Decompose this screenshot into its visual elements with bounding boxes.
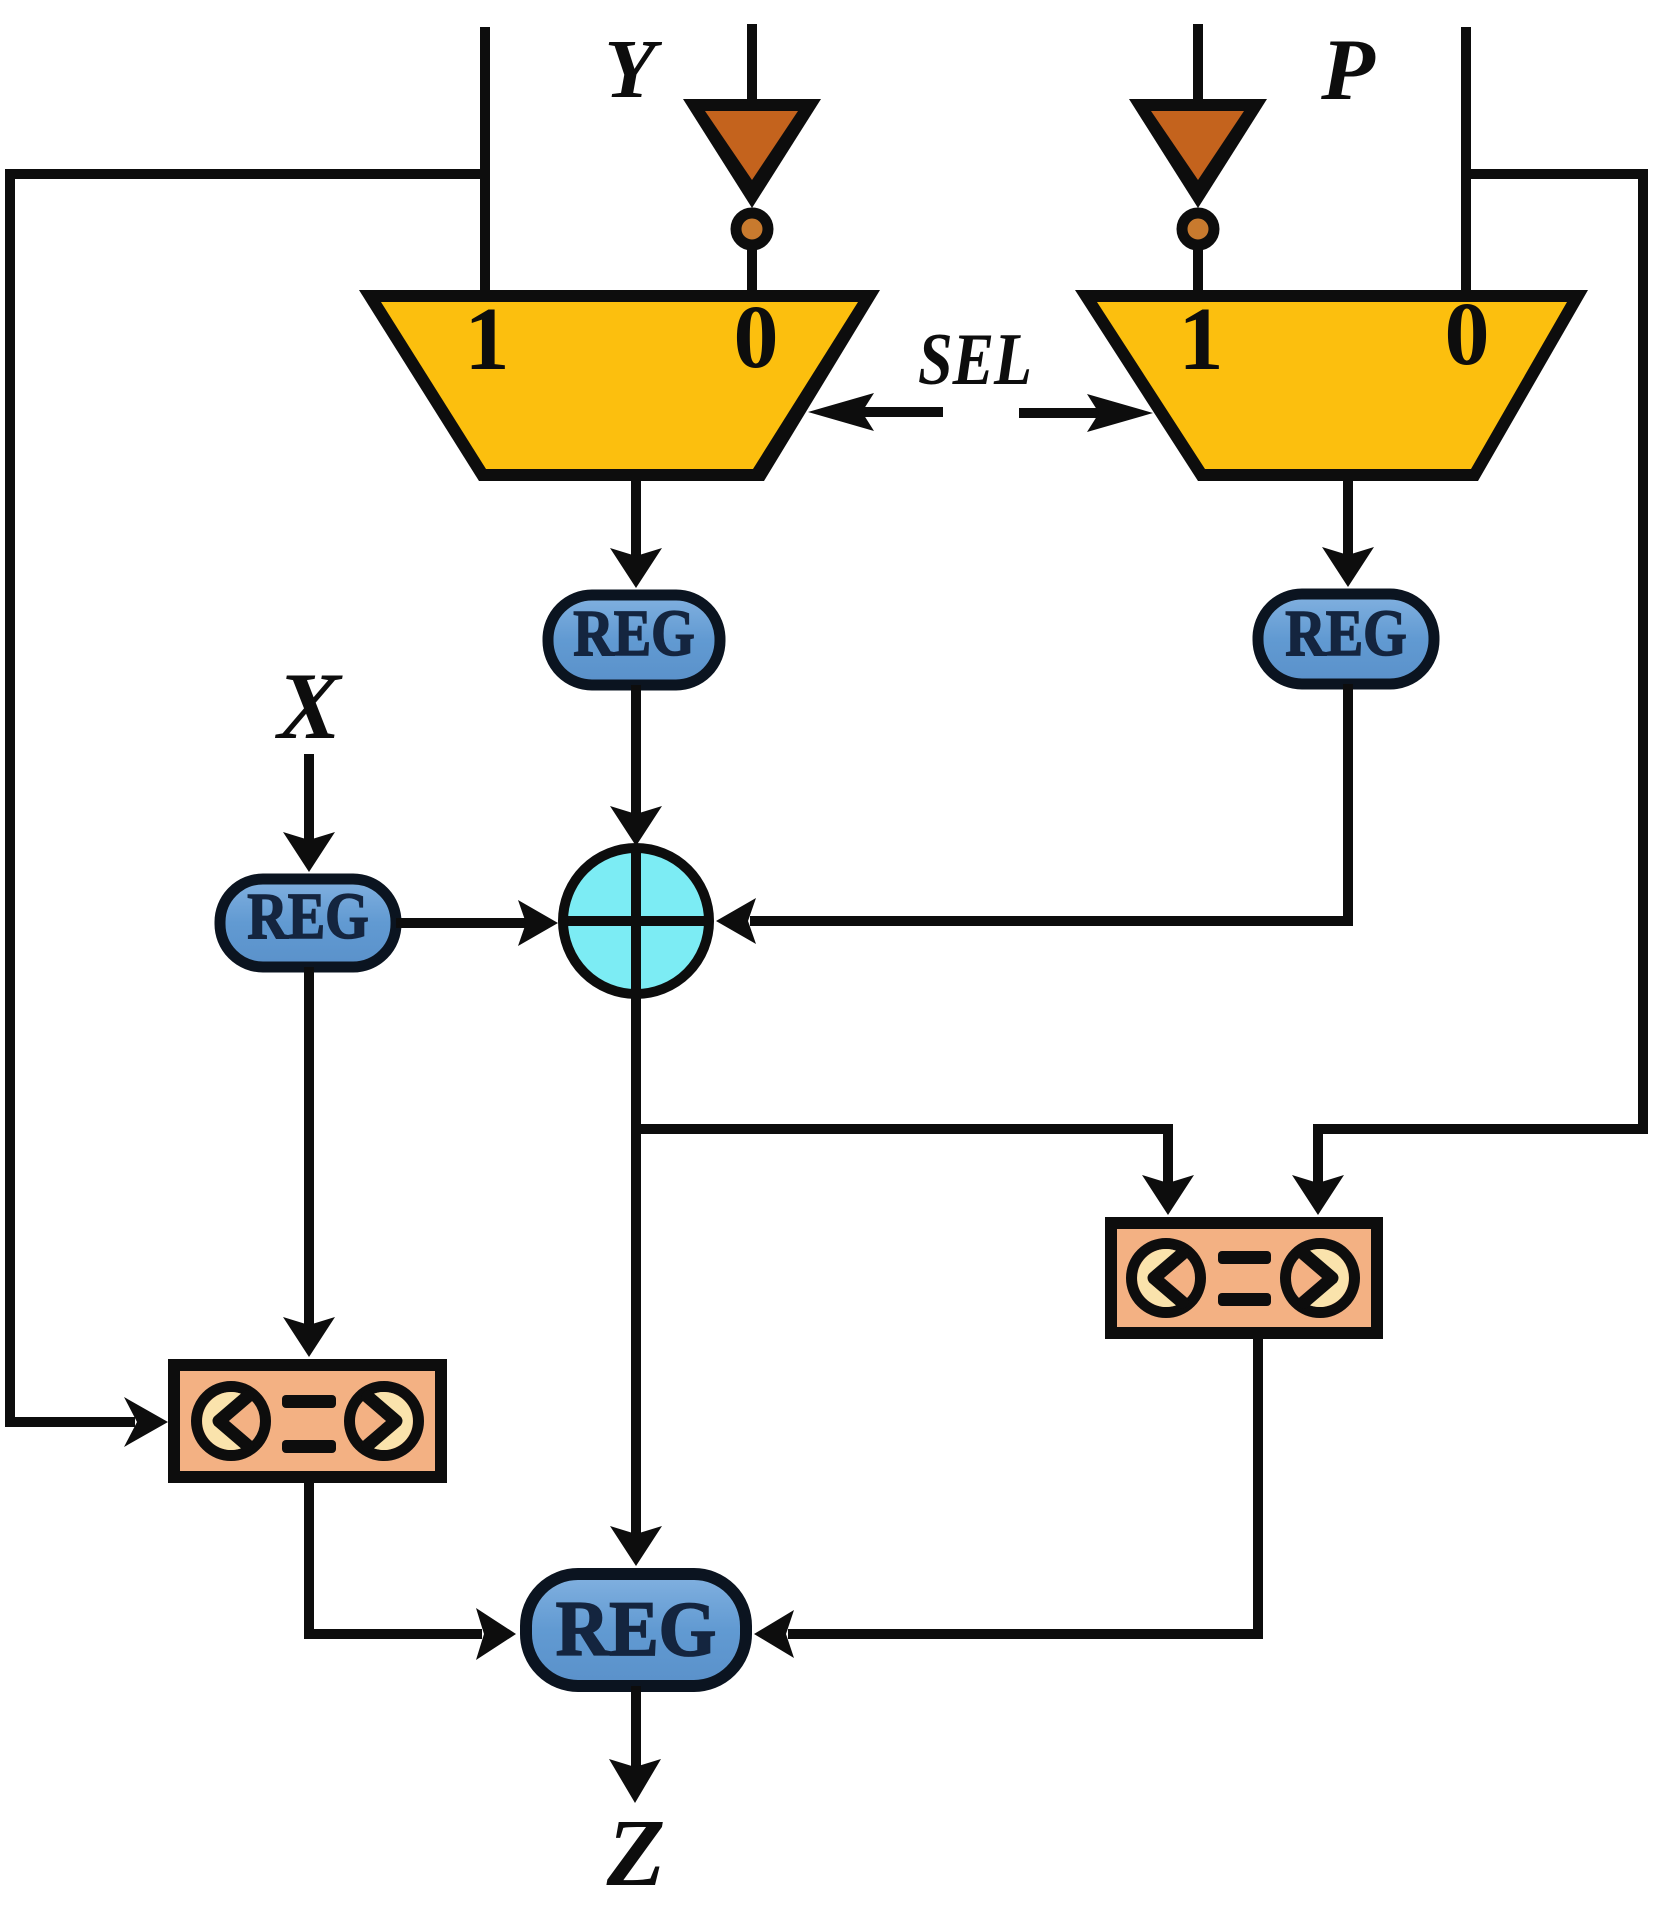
comparator CMP1 equals bars <box>282 1395 336 1408</box>
wire: REG3 output right into XOR with arrow <box>396 918 528 928</box>
XOR gate X1 cross vertical <box>631 845 641 997</box>
register REG2 <box>1258 594 1434 684</box>
wire: CMP2 output down then left into REG4 with arrow <box>788 1333 1258 1634</box>
svg-text:REG: REG <box>1285 597 1407 670</box>
wire: inverter G2 output to mux U2 pin 1 <box>1193 248 1203 300</box>
wire: branch right from junction to CMP2 left input with arrow <box>636 1129 1168 1185</box>
wire: SEL arrow into mux U1 <box>860 407 943 417</box>
wire: left edge into CMP1 with arrow <box>5 1417 135 1427</box>
wire: inverter G1 output to mux U1 pin 0 <box>747 248 757 300</box>
inverter G1 bubble <box>736 213 768 245</box>
comparator CMP2 box <box>1111 1223 1377 1333</box>
comparator CMP1 box <box>174 1365 441 1477</box>
svg-text:1: 1 <box>1179 290 1224 389</box>
svg-text:Y: Y <box>604 23 662 116</box>
wire: SEL arrow into mux U2 <box>1019 408 1104 418</box>
svg-text:1: 1 <box>465 290 510 389</box>
wire: left edge vertical down to comparator CMP1 <box>5 169 15 1427</box>
comparator CMP1 less-than circle <box>197 1387 266 1456</box>
svg-text:REG: REG <box>556 1586 717 1672</box>
wire: mux U1 output arrow to REG1 <box>631 475 641 560</box>
register REG3 <box>220 879 396 967</box>
register REG4 (output register) <box>526 1574 746 1686</box>
wire: Y input vertical into inverter G1 <box>747 24 757 104</box>
wire: right edge branch to CMP2 right input with arrow <box>1318 1129 1643 1185</box>
wire: X input arrow into REG3 <box>304 754 314 842</box>
comparator CMP1 greater-than circle <box>350 1387 419 1456</box>
wire: REG3 output down to comparator CMP1 with arrow <box>304 967 314 1326</box>
XOR gate X1 circle <box>563 848 709 994</box>
XOR gate X1 cross horizontal <box>560 916 712 926</box>
inverter G1 triangle <box>683 99 821 208</box>
svg-text:0: 0 <box>1445 285 1490 384</box>
wire: right tap horizontal to right edge <box>1466 169 1643 179</box>
comparator CMP2 less-than circle <box>1132 1244 1201 1313</box>
svg-text:SEL: SEL <box>918 318 1032 400</box>
inverter G2 bubble <box>1182 213 1214 245</box>
wire: mux U2 output arrow to REG2 <box>1343 475 1353 560</box>
svg-text:REG: REG <box>247 880 369 953</box>
wire: XOR output continues down to REG4 with arrow <box>631 1124 641 1536</box>
wire: P input vertical into inverter G2 <box>1193 24 1203 104</box>
mux U1 (left multiplexer) <box>359 290 880 481</box>
inverter G2 triangle <box>1129 99 1267 208</box>
wire: right edge vertical down <box>1638 169 1648 1134</box>
svg-text:0: 0 <box>734 288 779 387</box>
svg-text:P: P <box>1320 22 1376 119</box>
wire: top-left vertical input to mux U1 pin 1 <box>480 27 490 300</box>
comparator CMP2 equals bars <box>1218 1251 1271 1264</box>
wire: REG1 output down into XOR with arrow <box>631 685 641 816</box>
wire: CMP1 output down then right into REG4 with arrow <box>309 1477 482 1634</box>
wire: REG2 output down then left into XOR with arrow <box>750 684 1348 921</box>
comparator CMP2 greater-than circle <box>1286 1244 1355 1313</box>
svg-text:Z: Z <box>606 1799 666 1906</box>
wire: XOR output down to junction <box>631 993 641 1134</box>
mux U2 (right multiplexer) <box>1075 290 1588 481</box>
svg-text:REG: REG <box>573 597 695 670</box>
wire: top-right vertical input to mux U2 pin 0 <box>1461 27 1471 300</box>
wire: REG4 output arrow to Z <box>631 1686 641 1768</box>
register REG1 <box>548 595 720 685</box>
wire: feedback tap horizontal to left edge <box>5 169 485 179</box>
svg-text:X: X <box>274 653 343 759</box>
